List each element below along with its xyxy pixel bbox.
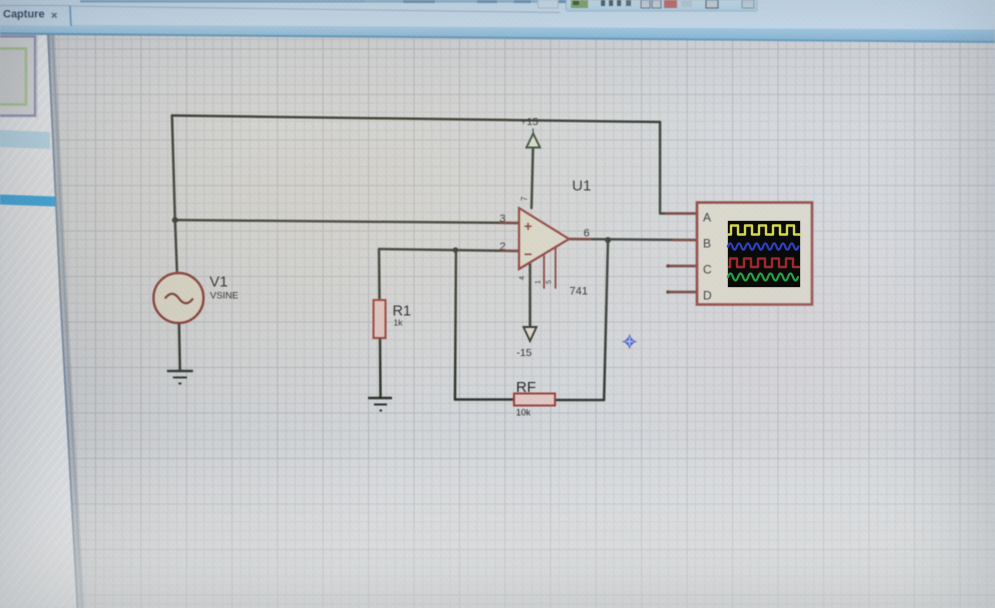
svg-text:D: D — [703, 289, 712, 303]
svg-text:RF: RF — [516, 379, 536, 396]
svg-text:7: 7 — [520, 196, 529, 201]
svg-text:U1: U1 — [572, 178, 591, 195]
svg-text:B: B — [703, 237, 711, 251]
svg-text:C: C — [703, 263, 712, 277]
svg-text:3: 3 — [500, 213, 506, 225]
svg-text:-15: -15 — [517, 347, 532, 359]
svg-text:V1: V1 — [210, 274, 228, 291]
svg-text:1k: 1k — [394, 318, 404, 328]
svg-text:6: 6 — [584, 228, 590, 240]
svg-text:1: 1 — [535, 280, 542, 284]
svg-text:741: 741 — [570, 286, 588, 298]
svg-text:−: − — [524, 246, 532, 262]
svg-text:2: 2 — [500, 241, 506, 253]
svg-text:10k: 10k — [516, 408, 531, 418]
svg-text:+15: +15 — [521, 116, 539, 128]
svg-text:4: 4 — [519, 276, 526, 280]
svg-text:A: A — [703, 211, 711, 225]
svg-text:VSINE: VSINE — [210, 291, 239, 302]
svg-text:+: + — [524, 218, 532, 234]
svg-text:×: × — [51, 10, 57, 22]
svg-text:Capture: Capture — [3, 9, 45, 21]
svg-text:5: 5 — [546, 280, 553, 284]
